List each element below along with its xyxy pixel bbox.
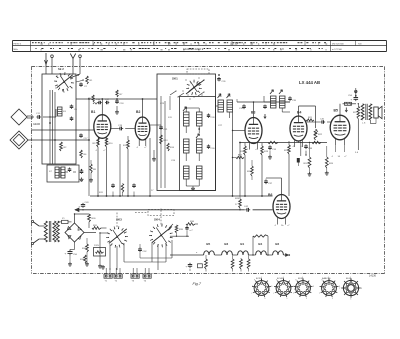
capacitor C7 [70, 117, 74, 121]
wire [239, 196, 241, 210]
mains transformer secondary [53, 221, 59, 242]
heater chain labels [196, 252, 227, 255]
wire [127, 136, 129, 196]
svg-text:EABC80: EABC80 [322, 277, 331, 280]
wire [0, 0, 1, 1]
IF1 secondary wire [229, 112, 231, 118]
pentode B3 [245, 118, 262, 150]
trimmer C28 [207, 114, 215, 120]
svg-text:220V: 220V [94, 245, 100, 247]
svg-text:3: 3 [361, 288, 362, 290]
wire y236 [170, 231, 189, 237]
switch contact arm [186, 79, 205, 94]
svg-text:5: 5 [286, 298, 287, 300]
terminal T3 [131, 268, 139, 283]
svg-text:B2: B2 [136, 110, 140, 114]
svg-text:9: 9 [254, 280, 255, 282]
top bus [76, 98, 157, 100]
svg-text:B4: B4 [297, 111, 301, 115]
svg-text:SK1: SK1 [172, 77, 178, 81]
svg-text:7: 7 [251, 293, 252, 295]
svg-text:Sk 2: Sk 2 [58, 67, 64, 71]
svg-text:B3: B3 [224, 242, 228, 246]
label SK4 [154, 218, 160, 222]
osc coil S20 [184, 112, 190, 126]
wire [358, 103, 359, 106]
tube socket B2 [273, 277, 294, 300]
resistor R36 [186, 221, 195, 225]
junction dots on buses [82, 195, 263, 210]
wire [355, 119, 359, 154]
arrow core S43 [279, 90, 282, 94]
wires SK3 down [110, 243, 124, 270]
svg-text:GRAM: GRAM [33, 123, 40, 126]
label 14136 [369, 275, 377, 278]
electrolytic C56 [348, 91, 358, 102]
voltage selector [94, 245, 106, 256]
output pentode B5 [330, 115, 350, 146]
capacitor C38 [304, 144, 313, 150]
wire horiz y262 [124, 261, 166, 263]
wire [244, 143, 246, 196]
FM aerial down-arrow [45, 53, 48, 66]
svg-text:EC92: EC92 [256, 278, 262, 280]
dropper resistor R42 [240, 259, 243, 269]
wire [261, 143, 263, 196]
svg-text:ECH81: ECH81 [277, 278, 285, 280]
svg-text:B1: B1 [91, 110, 95, 114]
wire anode row [239, 141, 327, 143]
resistor R2 [60, 142, 67, 151]
wire [74, 213, 96, 232]
capacitor C22 [111, 184, 115, 197]
capacitor C14 [96, 99, 102, 104]
aerial input diamond [11, 109, 33, 125]
FM IF transformer box [47, 165, 79, 182]
anode wire B3 [253, 101, 255, 117]
wire [305, 151, 306, 156]
svg-text:5: 5 [264, 298, 265, 300]
mains transformer core [49, 221, 51, 242]
tube socket B1 [251, 277, 272, 300]
gram wire [28, 139, 90, 141]
svg-text:5: 5 [306, 298, 307, 300]
capacitor C11 [36, 113, 41, 119]
electrolytic near heater [186, 263, 193, 269]
junction dots [185, 107, 200, 130]
capacitor C21 [159, 126, 168, 132]
wire [288, 141, 290, 196]
rotary switch SK2 [54, 72, 74, 92]
fusible resistor [343, 102, 357, 105]
wire verticals in FM box [50, 90, 55, 164]
svg-text:7: 7 [293, 293, 294, 295]
capacitor C35 [288, 96, 297, 102]
capacitor C52 [138, 247, 147, 253]
label 17 [235, 204, 238, 206]
resistor R19 [261, 146, 269, 155]
B6 pin labels [274, 225, 290, 227]
capacitor C31 [239, 104, 246, 110]
SK1 contact dots [182, 77, 202, 99]
misc labels [99, 103, 223, 194]
rotary switch SK1 [186, 80, 202, 95]
wire anode B1 [101, 98, 103, 115]
terminal T2 [114, 268, 122, 283]
arrow core S40 [218, 94, 221, 98]
dropper resistor R41 [231, 259, 234, 269]
svg-text:3: 3 [271, 286, 272, 288]
mech link dashed [117, 208, 174, 227]
anode wire B6 [266, 178, 282, 195]
arrow core S41 [227, 94, 230, 98]
resistor R23 [284, 145, 290, 154]
switch wafer (dashed) [187, 69, 209, 74]
bus wire y196 [90, 195, 273, 197]
wire [0, 0, 1, 1]
dropper resistor R43 [247, 259, 250, 269]
fuse in heater lead [185, 226, 193, 232]
aerial socket 2 [79, 55, 82, 66]
heater coils [204, 251, 284, 255]
label B2 [136, 110, 140, 114]
tube socket B4 [319, 277, 340, 300]
IF2 coil S42 [271, 96, 277, 108]
label LX 444 AB [299, 80, 320, 85]
svg-text:B5: B5 [206, 242, 210, 246]
padder C30 [207, 145, 215, 151]
wire [169, 224, 198, 228]
wire [85, 238, 89, 266]
wire [139, 244, 141, 258]
SK2 contact dots [55, 73, 72, 92]
svg-text:FM 87.5: FM 87.5 [14, 43, 22, 45]
capacitor C17 [79, 134, 88, 141]
anode wire B5 [339, 104, 341, 115]
tube socket B5 [339, 277, 362, 301]
speaker wires [362, 118, 376, 125]
wire [119, 144, 121, 196]
B4 pin labels [292, 146, 303, 148]
AM dipole aerial [70, 54, 75, 67]
dial scale [13, 40, 387, 52]
resistor R14 [167, 143, 175, 151]
resistor R12 [123, 140, 129, 149]
svg-text:B2: B2 [275, 242, 279, 246]
output transformer secondary [369, 104, 372, 120]
resistor R5 [88, 95, 94, 102]
wires inside unit [161, 96, 170, 188]
wire [206, 255, 249, 272]
trimmer C26 [217, 74, 226, 83]
wire horiz y266 [0, 0, 1, 1]
junction [49, 89, 64, 141]
trimmer C2 [79, 83, 87, 89]
loudspeaker [374, 106, 382, 118]
svg-text:102 104: 102 104 [230, 43, 239, 45]
dashed link horiz [0, 0, 1, 1]
grid cap C40 [320, 119, 325, 124]
svg-text:5: 5 [332, 298, 333, 300]
svg-text:3: 3 [313, 286, 314, 288]
wire [189, 269, 191, 271]
svg-text:7: 7 [339, 288, 340, 290]
label Fig.7 [193, 282, 202, 286]
FM IF transformer [49, 167, 65, 178]
cathode resistor R18 [240, 146, 246, 155]
capacitor C10 [68, 168, 72, 173]
tube B6 [273, 195, 290, 225]
wire horiz y258 [140, 257, 172, 259]
svg-text:L.S: L.S [362, 123, 366, 125]
svg-text:7: 7 [319, 293, 320, 295]
coil S3 [58, 107, 67, 116]
resistor R32 [82, 244, 88, 252]
wire [186, 126, 199, 133]
wire [106, 147, 108, 196]
label S40 S41 [218, 96, 232, 98]
osc coil S25 [197, 166, 203, 179]
resistor R13 [160, 135, 169, 144]
cathode wire B2 [149, 138, 151, 196]
resistor R1 [86, 76, 93, 84]
B2 pin labels [136, 147, 147, 149]
wire [240, 143, 301, 197]
capacitor C19 [118, 125, 123, 130]
wire grid B1 [31, 129, 94, 131]
wires SK3 left [98, 232, 109, 268]
svg-text:kHz 520 600: kHz 520 600 [332, 43, 345, 45]
wire [327, 146, 345, 152]
wire x232 down [232, 112, 234, 196]
wire [89, 222, 107, 228]
label SK3 [116, 218, 122, 222]
arrow core S20 [183, 107, 186, 111]
coil sub-box [180, 97, 216, 191]
svg-text:EL84: EL84 [346, 278, 352, 280]
pentode B1 [94, 115, 111, 145]
coil loop [93, 103, 99, 104]
aerial socket 1 [51, 55, 54, 66]
svg-text:14136: 14136 [369, 275, 377, 278]
IF1 coil S41 [227, 100, 233, 112]
heater chain end [284, 254, 291, 257]
wire bus y155 [297, 141, 300, 166]
AVC wire [88, 98, 90, 196]
heater labels [206, 242, 279, 246]
IF1 coil S40 [218, 100, 224, 112]
wire y130 [232, 130, 245, 131]
oscillator unit outer box [157, 74, 216, 191]
wire [97, 147, 99, 196]
resistor R15 [121, 184, 123, 197]
wire [216, 99, 238, 106]
capacitor C25 [132, 184, 136, 197]
wire [282, 108, 290, 112]
top cap marker [355, 88, 358, 93]
wire [68, 242, 75, 266]
B3 pin labels [246, 149, 258, 151]
wire [186, 179, 199, 191]
AVC arrow [263, 105, 267, 119]
wire anode B2 [142, 98, 144, 117]
rotary switch SK3 [106, 226, 128, 247]
fuse [58, 218, 72, 224]
trimmer C6 [70, 105, 78, 112]
resistor R6 [80, 150, 87, 158]
label B5 [334, 109, 338, 113]
svg-text:B4: B4 [258, 242, 262, 246]
resistor R20 [247, 166, 253, 176]
heater wire [170, 254, 273, 256]
resistor R22 [314, 129, 323, 140]
wire [307, 121, 331, 123]
switch contacts outside box [70, 74, 84, 82]
label SK1 [172, 77, 178, 81]
label B4 [297, 111, 301, 115]
svg-text:MHz: MHz [14, 49, 18, 51]
capacitor C42 [244, 206, 250, 212]
wire [186, 108, 199, 112]
terminal T1 [104, 268, 112, 283]
series R7 C18 [115, 90, 124, 114]
B1 pin labels [95, 150, 106, 152]
terminal T4 [143, 268, 151, 283]
resistor loop above B4 [252, 235, 268, 256]
cap to ground [80, 169, 84, 182]
resistor R31 [92, 225, 101, 229]
HT wire y160 [0, 0, 1, 1]
osc coil S23 [197, 139, 203, 153]
B5 pin labels [331, 156, 347, 158]
svg-text:EF89: EF89 [298, 278, 304, 280]
resistor R17 [232, 155, 244, 159]
resistor R25 [325, 157, 333, 168]
tube socket B3 [293, 277, 314, 300]
resistor R33 [80, 255, 86, 263]
IF2 coil S43 [280, 96, 286, 108]
FM tuner unit box [42, 74, 76, 164]
wire [65, 171, 76, 173]
resistor R10 [105, 138, 113, 147]
wire [46, 66, 80, 74]
output transformer core [366, 104, 367, 120]
rotary switch SK4 [149, 224, 173, 248]
grounds [101, 265, 105, 269]
dropper resistor R40 [205, 259, 208, 269]
svg-text:LX 444 AB: LX 444 AB [299, 80, 320, 85]
arrow core S23 [196, 134, 199, 138]
pentode B2 [135, 117, 150, 146]
output transformer primary [361, 104, 364, 120]
anode wire B4 [299, 106, 316, 128]
svg-text:9: 9 [295, 280, 296, 282]
capacitor C37 [264, 179, 273, 185]
wires SK4 down [152, 240, 172, 270]
wire [0, 0, 1, 1]
resistor R27 [353, 106, 360, 119]
resistor R30 [88, 214, 97, 222]
label SK2 [58, 67, 64, 71]
gram input diamond [10, 131, 28, 149]
down arrow AVC [345, 108, 347, 112]
capacitor C17b [105, 99, 110, 104]
svg-text:5: 5 [350, 299, 351, 301]
mains transformer primary [44, 221, 47, 242]
svg-text:B H: B H [280, 49, 284, 51]
wire [308, 143, 329, 177]
label B1 [91, 110, 95, 114]
osc coil S21 [197, 112, 203, 126]
chassis frame (dash-dot border) [32, 67, 385, 274]
wire [267, 101, 290, 103]
mains plug [31, 220, 44, 244]
label GRAM [33, 123, 40, 126]
wire [0, 0, 1, 1]
wire [264, 96, 267, 102]
wire [111, 128, 135, 130]
smoothing cap C50 [65, 250, 78, 257]
osc coil S24 [184, 166, 190, 179]
arrow core S42 [270, 90, 273, 94]
svg-text:B5: B5 [334, 109, 338, 113]
svg-text:7: 7 [273, 293, 274, 295]
wire [251, 160, 253, 180]
wire [150, 124, 161, 126]
svg-text:m 577 500: m 577 500 [332, 49, 343, 51]
wire [186, 153, 199, 161]
anode bus y102 [237, 101, 290, 103]
resistor R28 [235, 198, 241, 208]
bus wire y210 [75, 208, 273, 212]
label B6 [268, 193, 272, 197]
osc coil S22 [184, 139, 190, 153]
wire [43, 109, 56, 118]
svg-text:B1: B1 [240, 242, 244, 246]
electrolytic C49 [79, 202, 90, 209]
resistor R8b [89, 160, 97, 182]
capacitor C33 [268, 145, 277, 151]
ground [152, 150, 156, 161]
resistor R35 [175, 225, 184, 237]
diode loads [306, 117, 314, 121]
rectifier bridge [65, 223, 84, 242]
svg-text:Fig.7: Fig.7 [193, 282, 202, 286]
small box [198, 264, 203, 268]
svg-text:NAARDEN AVRO E: NAARDEN AVRO E [183, 48, 204, 51]
pentode B4 [290, 116, 307, 147]
cathode resistor R9 [93, 138, 100, 147]
resistor R24 [304, 157, 311, 168]
wire [268, 151, 272, 160]
SK1 lower contacts [170, 90, 205, 97]
label B3 [251, 111, 255, 115]
svg-text:SK4: SK4 [154, 218, 160, 222]
